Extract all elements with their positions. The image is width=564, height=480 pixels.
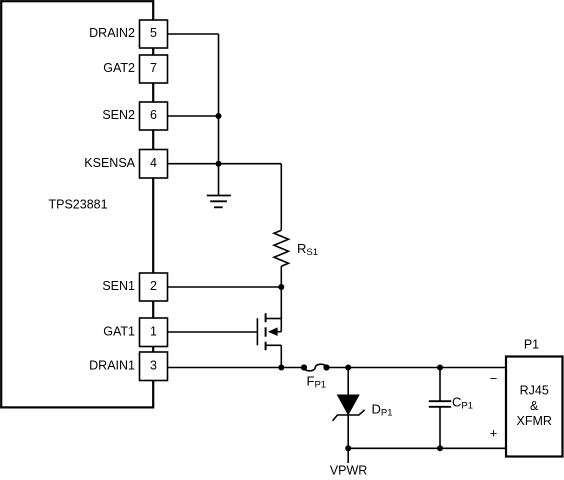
capacitor CP1 top lead — [439, 368, 441, 402]
node junction SEN2-bus — [216, 113, 222, 119]
node junction diode top — [345, 365, 351, 371]
svg-text:6: 6 — [150, 108, 157, 122]
pin GAT2 box — [140, 55, 168, 83]
transistor Q1 channel segment middle — [265, 327, 267, 336]
svg-text:SEN1: SEN1 — [102, 279, 135, 293]
wire pin4 KSENSA to resistor column — [168, 163, 282, 165]
wire pin6 SEN2 to bus — [168, 115, 219, 117]
svg-text:7: 7 — [150, 61, 157, 75]
ground symbol — [207, 196, 231, 208]
transistor Q1 channel segment top — [265, 313, 267, 322]
wire resistor bottom through SEN1 node down to MOSFET body — [280, 266, 282, 332]
node junction SEN1-RS1 — [278, 284, 284, 290]
svg-text:&: & — [530, 399, 539, 413]
svg-text:DRAIN2: DRAIN2 — [89, 26, 135, 40]
transistor Q1 source connection — [266, 344, 282, 346]
capacitor CP1 bottom plate — [429, 406, 451, 408]
diode DP1 anode lead — [347, 368, 349, 396]
svg-text:+: + — [490, 426, 498, 441]
fuse FP1 curve — [304, 364, 327, 371]
svg-text:5: 5 — [150, 26, 157, 40]
transistor Q1 body connection — [277, 331, 282, 333]
wire pin1 GAT1 to MOSFET gate — [168, 331, 258, 333]
fuse FP1 left terminal dot — [301, 364, 307, 370]
svg-text:GAT2: GAT2 — [103, 61, 135, 75]
svg-text:GAT1: GAT1 — [103, 324, 135, 338]
svg-text:RS1: RS1 — [297, 241, 318, 258]
pin KSENSA box — [140, 150, 168, 179]
diode DP1 TVS triangle — [338, 395, 359, 415]
node junction KSENSA-bus — [216, 161, 222, 167]
svg-text:3: 3 — [150, 358, 157, 372]
node junction cap top — [437, 365, 443, 371]
node junction DRAIN1-MOSFET source — [278, 365, 284, 371]
wire pin3 DRAIN1 to fuse — [168, 367, 305, 369]
svg-text:DP1: DP1 — [372, 401, 393, 418]
pin SEN2 box — [140, 102, 168, 130]
diode DP1 cathode bar with TVS wings — [333, 410, 365, 421]
wire KSENSA column down to resistor top — [280, 164, 282, 231]
transistor Q1 source lead down — [280, 345, 282, 367]
svg-text:FP1: FP1 — [307, 374, 327, 391]
transistor Q1 body arrow — [268, 327, 278, 336]
pin SEN1 box — [140, 273, 168, 301]
wire vertical ground bus — [218, 34, 220, 195]
svg-text:P1: P1 — [524, 338, 539, 352]
transistor Q1 channel segment bottom — [265, 342, 267, 351]
svg-text:RJ45: RJ45 — [520, 384, 549, 398]
svg-text:CP1: CP1 — [452, 395, 473, 412]
svg-text:−: − — [490, 371, 498, 386]
svg-text:XFMR: XFMR — [516, 414, 551, 428]
resistor RS1 zigzag — [274, 230, 289, 266]
capacitor CP1 top plate — [429, 400, 451, 402]
pin DRAIN1 box — [140, 352, 168, 381]
svg-text:1: 1 — [150, 324, 157, 338]
transistor Q1 N-MOSFET — [257, 313, 281, 367]
svg-text:TPS23881: TPS23881 — [49, 197, 108, 211]
wire fuse to P1 top rail — [327, 367, 507, 369]
pin DRAIN2 box — [140, 20, 168, 48]
transistor Q1 gate bar — [256, 318, 258, 345]
svg-text:KSENSA: KSENSA — [84, 156, 135, 170]
wire bottom rail to P1 — [348, 447, 506, 449]
IC U1 TPS23881 outline box — [1, 1, 153, 407]
svg-text:4: 4 — [150, 156, 157, 170]
svg-text:2: 2 — [150, 279, 157, 293]
wire pin2 SEN1 to node — [168, 286, 282, 288]
capacitor CP1 bottom lead — [439, 407, 441, 449]
pin GAT1 box — [140, 318, 168, 347]
transistor Q1 drain connection — [266, 318, 282, 320]
svg-text:SEN2: SEN2 — [102, 108, 135, 122]
wire pin5 DRAIN2 to vertical bus — [168, 33, 219, 35]
node junction diode bottom rail — [345, 445, 351, 451]
svg-text:DRAIN1: DRAIN1 — [89, 358, 135, 372]
node junction cap bottom — [437, 445, 443, 451]
wire diode cathode down through bottom node to VPWR stub — [347, 415, 349, 463]
connector P1 box — [506, 357, 563, 457]
fuse FP1 right terminal dot — [323, 364, 329, 370]
svg-text:VPWR: VPWR — [330, 464, 368, 478]
